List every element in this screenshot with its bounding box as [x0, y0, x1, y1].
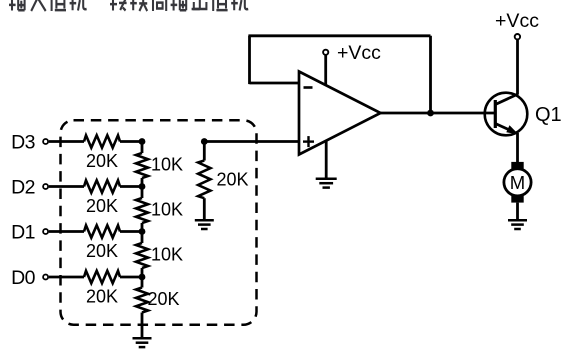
- op-amp +Vcc terminal: [323, 50, 328, 55]
- terminal D0: [43, 275, 48, 280]
- wire shunt top: [203, 142, 206, 161]
- wire D1 to resistor: [49, 230, 84, 233]
- wire collector to +Vcc: [516, 40, 519, 95]
- svg-text:M: M: [510, 172, 525, 193]
- svg-text:+Vcc: +Vcc: [495, 10, 539, 32]
- resistor 10K (ladder 2): [136, 198, 148, 223]
- svg-text:20K: 20K: [86, 241, 118, 261]
- wire D2 to resistor: [49, 185, 84, 188]
- node output/feedback: [427, 110, 434, 117]
- wire feedback left vertical: [248, 36, 251, 84]
- resistor 20K (D0 branch): [84, 271, 120, 283]
- wire ladder output to op-amp + input: [204, 140, 299, 143]
- terminal D2: [43, 184, 48, 189]
- wire shunt bottom: [203, 198, 206, 220]
- wire D0 to resistor: [49, 276, 84, 279]
- svg-text:20K: 20K: [86, 196, 118, 216]
- svg-text:10K: 10K: [151, 199, 183, 219]
- node shunt/output: [201, 138, 208, 145]
- resistor 20K (shunt): [198, 161, 210, 199]
- node ladder/D1: [139, 228, 146, 235]
- wire resistor to ladder node: [120, 230, 142, 233]
- wire resistor to ladder node: [120, 140, 142, 143]
- +Vcc terminal (top right): [515, 34, 520, 39]
- motor M: [504, 162, 531, 203]
- svg-text:10K: 10K: [151, 245, 183, 265]
- wire inverting input: [250, 82, 300, 85]
- caption: cut-off Chinese text line: [9, 0, 248, 11]
- op-amp non-inverting input mark: [303, 136, 314, 147]
- op-amp ground pin wire: [325, 140, 328, 179]
- wire ladder segment: [141, 187, 144, 199]
- svg-text:Q1: Q1: [535, 104, 562, 126]
- wire ladder segment: [141, 268, 144, 277]
- wire motor to ground: [516, 203, 519, 221]
- resistor 20K (D3 branch): [84, 135, 120, 147]
- ground (shunt): [195, 219, 214, 222]
- node ladder/D0: [139, 274, 146, 281]
- resistor 10K (ladder 3): [136, 243, 148, 268]
- wire D3 to resistor: [49, 140, 84, 143]
- wire resistor to ladder node: [120, 276, 142, 279]
- ground (ladder): [133, 337, 152, 340]
- svg-text:D0: D0: [11, 267, 35, 289]
- node ladder/D2: [139, 183, 146, 190]
- dashed network boundary box: [61, 120, 257, 324]
- node ladder/D3: [139, 138, 146, 145]
- wire emitter to motor: [516, 133, 519, 163]
- svg-text:D1: D1: [11, 221, 35, 243]
- svg-text:20K: 20K: [86, 151, 118, 171]
- svg-text:20K: 20K: [148, 289, 180, 309]
- wire feedback right vertical: [429, 36, 432, 113]
- resistor 20K (D2 branch): [84, 180, 120, 192]
- wire to ladder ground: [141, 313, 144, 339]
- op-amp power pin wire: [324, 56, 327, 86]
- svg-text:+Vcc: +Vcc: [337, 42, 381, 64]
- svg-text:D3: D3: [11, 131, 35, 153]
- wire ladder segment: [141, 178, 144, 187]
- transistor Q1: [485, 93, 528, 136]
- wire ladder segment: [141, 223, 144, 232]
- svg-text:20K: 20K: [217, 169, 249, 189]
- wire D0 node down: [141, 277, 144, 288]
- svg-text:D2: D2: [11, 176, 35, 198]
- resistor 20K (D1 branch): [84, 225, 120, 237]
- op-amp U1: [299, 72, 381, 155]
- resistor 10K (ladder 1): [136, 153, 148, 178]
- resistor 20K (ladder bottom): [136, 288, 148, 313]
- ground (motor): [508, 219, 527, 222]
- svg-text:20K: 20K: [86, 286, 118, 306]
- terminal D3: [43, 139, 48, 144]
- terminal D1: [43, 229, 48, 234]
- op-amp inverting input mark: [304, 86, 313, 89]
- wire op-amp output: [381, 112, 495, 115]
- svg-text:10K: 10K: [151, 154, 183, 174]
- wire ladder segment: [141, 142, 144, 154]
- ground (op-amp): [316, 178, 337, 181]
- wire feedback top: [248, 34, 430, 37]
- wire resistor to ladder node: [120, 185, 142, 188]
- wire ladder segment: [141, 232, 144, 244]
